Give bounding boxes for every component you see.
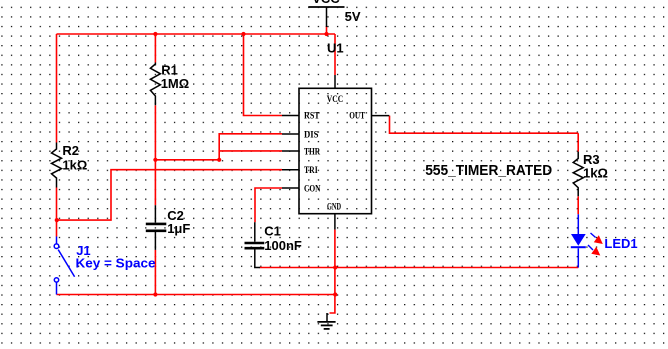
svg-text:100nF: 100nF — [264, 238, 302, 253]
svg-text:CON: CON — [304, 183, 321, 193]
svg-text:1kΩ: 1kΩ — [583, 166, 608, 181]
svg-text:DIS: DIS — [304, 130, 319, 140]
svg-text:RST: RST — [304, 111, 320, 121]
svg-text:LED1: LED1 — [604, 236, 637, 251]
svg-text:C1: C1 — [264, 224, 281, 239]
svg-text:5V: 5V — [345, 9, 361, 24]
svg-text:OUT: OUT — [349, 111, 365, 121]
svg-text:VCC: VCC — [312, 0, 340, 6]
svg-text:VCC: VCC — [327, 94, 343, 104]
svg-text:555_TIMER_RATED: 555_TIMER_RATED — [425, 163, 552, 179]
svg-text:THR: THR — [304, 146, 321, 156]
svg-text:TRI: TRI — [304, 165, 318, 175]
svg-text:U1: U1 — [327, 41, 344, 56]
svg-text:Key = Space: Key = Space — [76, 255, 156, 270]
svg-text:R2: R2 — [62, 143, 79, 158]
svg-text:1kΩ: 1kΩ — [62, 157, 87, 172]
svg-text:1MΩ: 1MΩ — [161, 76, 189, 91]
svg-text:GND: GND — [327, 202, 341, 212]
svg-text:1μF: 1μF — [167, 221, 190, 236]
